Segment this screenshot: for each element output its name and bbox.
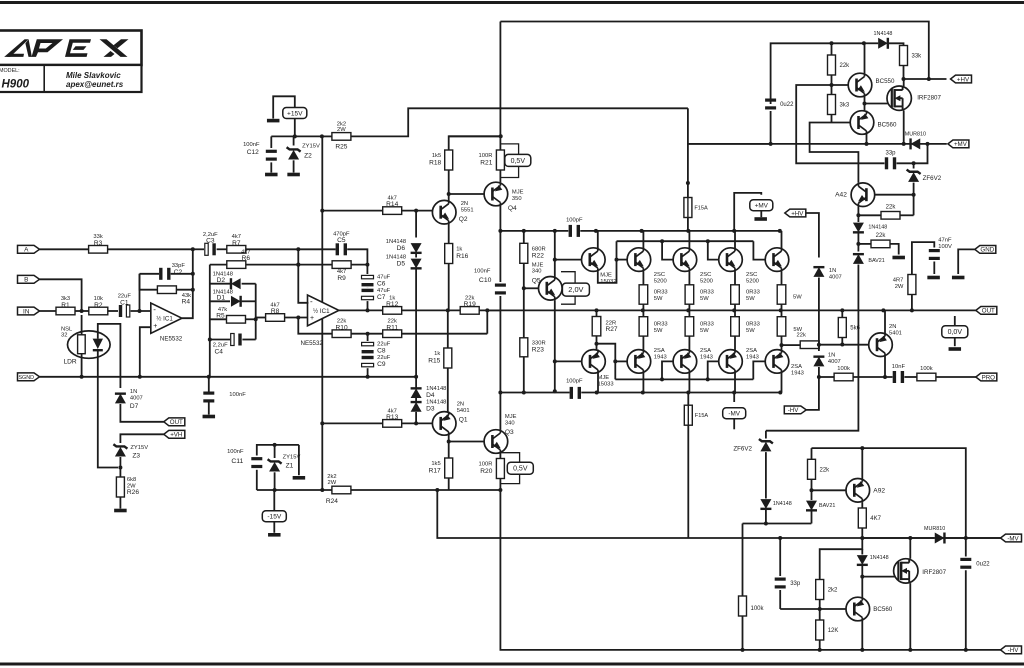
wire ZF6V2 to A42 base line (913, 183, 915, 216)
wire IC1a feedback column (139, 274, 141, 311)
svg-text:BC560: BC560 (873, 606, 892, 613)
junction R22 railT (522, 229, 526, 233)
wire 100nF to ground bar (208, 377, 210, 392)
svg-text:D4: D4 (426, 392, 435, 399)
resistor 22k cap multiplier (828, 55, 851, 75)
wire 0R33 upper b to OUT rail (688, 304, 690, 310)
wire 2SC5200 a collector to railT (642, 231, 644, 248)
wire 2SC5200 b collector to railT (688, 231, 690, 248)
junction lower base bus b (660, 377, 664, 381)
zener Z1 ZY15V (268, 455, 301, 472)
svg-text:H900: H900 (2, 79, 30, 91)
svg-text:MJE: MJE (598, 375, 610, 381)
junction BC560 emitter +MV line (865, 142, 869, 146)
svg-text:2k2: 2k2 (828, 588, 838, 594)
connector A (18, 245, 40, 253)
svg-text:5401: 5401 (889, 331, 902, 337)
capacitor C10 100nF (474, 269, 506, 295)
wire 5k6 column (841, 310, 843, 317)
svg-text:Z1: Z1 (286, 463, 294, 470)
ground bar below Z2 (287, 173, 300, 177)
ground bar below 0,0V (949, 347, 962, 351)
svg-text:1943: 1943 (791, 370, 804, 376)
wire R8 to IC1b + input (285, 317, 309, 319)
junction MJE15032 collector railT (594, 229, 598, 233)
junction base tap output Q10a (613, 359, 617, 363)
svg-text:½ IC1: ½ IC1 (313, 308, 330, 315)
capacitor 0u22 upper (765, 99, 794, 110)
diode D5 1N4148 (386, 255, 422, 269)
svg-text:Z2: Z2 (304, 153, 312, 160)
ground bar below 100nF (203, 415, 216, 419)
wire R25 over to F15A column (351, 108, 688, 136)
wire R23 column (523, 288, 525, 337)
wire 0R33 lower c to 2SA emitter (734, 336, 736, 350)
capacitor 33p upper (885, 150, 896, 169)
junction IRF drain -MV (908, 536, 912, 540)
wire gate diode column (861, 549, 863, 554)
svg-text:R16: R16 (456, 253, 468, 260)
svg-text:22k: 22k (820, 467, 831, 473)
wire 100k to 10nF (853, 376, 892, 378)
wire LED bottom down to Z3 node (98, 350, 118, 467)
junction hook +MV line (926, 142, 930, 146)
svg-text:ZY15V: ZY15V (130, 445, 148, 451)
resistor 22k 5W (793, 327, 819, 348)
wire R14 line (322, 210, 382, 212)
junction Q5 collector railT (553, 229, 557, 233)
wire +HV mid tag to protection diodes (806, 213, 819, 258)
wire node to C3 (193, 248, 204, 250)
resistor 33k (900, 46, 923, 66)
wire clamp diode to PRO line (818, 367, 820, 377)
wire R18-R21 top rail (449, 135, 501, 137)
junction base bus drop c (706, 239, 710, 243)
svg-text:R2: R2 (94, 302, 103, 309)
wire BC560 base line lower (780, 608, 846, 610)
svg-text:0R33: 0R33 (746, 290, 760, 296)
wire C11 Z1 bottom rail to R24 (257, 489, 332, 491)
fuse F15A lower (684, 405, 708, 425)
connector B (18, 275, 40, 283)
wire C11 down (256, 470, 258, 490)
capacitor C6 47uF (362, 274, 391, 287)
svg-text:4007: 4007 (828, 359, 841, 365)
svg-text:0u22: 0u22 (780, 102, 794, 108)
wire -MV label stub from railB (733, 393, 735, 403)
svg-text:1N: 1N (829, 268, 836, 274)
wire clamp column crossing OUT rail (818, 278, 820, 340)
svg-text:R9: R9 (337, 275, 346, 282)
junction Q11 collector railB (686, 391, 690, 395)
wire Q4 collector to railT (499, 206, 501, 231)
wire R2 to C1 (108, 310, 118, 312)
wire base elbow 2SA d (753, 361, 765, 379)
wire C10 down across OUT rail to railB (499, 296, 501, 393)
junction 0u22 +MV line (769, 142, 773, 146)
junction Q9 collector railT (778, 229, 782, 233)
svg-text:2N: 2N (889, 324, 896, 330)
svg-text:12K: 12K (828, 628, 839, 634)
junction bias column R24 rail (320, 488, 324, 492)
wire feedback drop R19 to R11 (486, 310, 488, 333)
svg-text:1943: 1943 (654, 354, 667, 360)
wire R13 line (322, 422, 382, 424)
wire Q5 collector up to railT (554, 231, 556, 277)
connector -HV mid (784, 406, 806, 414)
svg-text:C11: C11 (231, 458, 243, 465)
wire -HV mid tag elbow up to protection column (806, 377, 819, 410)
label 2,0V (562, 283, 589, 296)
svg-text:1k: 1k (434, 351, 440, 357)
junction Z1 top rail (273, 443, 277, 447)
svg-text:R26: R26 (127, 489, 139, 496)
junction top rail +HV line (927, 77, 931, 81)
connector +HV mid (785, 209, 806, 217)
resistor R27 (592, 317, 618, 336)
svg-text:2W: 2W (337, 127, 346, 133)
svg-text:350: 350 (512, 196, 522, 202)
wire R14 to Q2 base (402, 210, 433, 212)
junction IC1b + node (296, 316, 300, 320)
resistor R25 (332, 121, 351, 150)
svg-text:D7: D7 (130, 403, 139, 410)
wire R19 to OUT rail node (479, 309, 500, 311)
svg-text:R20: R20 (480, 468, 492, 475)
junction R27 OUT rail (595, 308, 599, 312)
junction +15V rail (293, 134, 297, 138)
resistor 3k3 (828, 95, 850, 115)
svg-text:PRO: PRO (982, 374, 996, 381)
wire 2SC5200 c emitter to 0R33 (734, 271, 736, 284)
wire D5 to SGND (415, 270, 417, 377)
svg-text:1N4148: 1N4148 (773, 501, 792, 507)
wire top bias line (832, 42, 864, 44)
svg-text:-MV: -MV (1007, 535, 1019, 542)
junction ZF6V2 A42 base (912, 193, 916, 197)
wire Q4 base to Q2 collector (449, 193, 484, 195)
svg-text:4K7: 4K7 (870, 516, 881, 522)
svg-text:340: 340 (532, 269, 542, 275)
svg-text:R12: R12 (386, 301, 398, 308)
junction 22k gnd branch (856, 242, 860, 246)
svg-text:R4: R4 (182, 299, 191, 306)
wire 0R33 lower d from OUT rail (781, 310, 783, 316)
wire A42 emitter node (857, 207, 859, 218)
APEX logo letter A (4, 39, 28, 57)
wire Z1 down (274, 472, 276, 490)
wire down to C6 (366, 265, 368, 274)
junction D3 R13 Q1 base (414, 421, 418, 425)
svg-text:2SC: 2SC (654, 272, 665, 278)
svg-text:BC550: BC550 (876, 78, 895, 85)
APEX logo letter P (32, 39, 64, 57)
svg-text:22k: 22k (886, 205, 897, 211)
diode D7 1N4007 (115, 389, 143, 410)
transistor BC550 (848, 73, 895, 97)
svg-text:+VH: +VH (170, 432, 182, 439)
wire 2SC5200 d emitter to 0R33 (781, 271, 783, 284)
diode 1N4148 top right (874, 31, 893, 49)
connector -MV right (1001, 534, 1022, 542)
svg-text:MODEL:: MODEL: (0, 68, 20, 74)
wire C2 to output column (171, 273, 193, 275)
svg-text:10nF: 10nF (892, 364, 906, 370)
capacitor 47nF 100V (929, 238, 952, 261)
wire Z2 to bar (293, 160, 295, 172)
wire LED top hook to D7 column (98, 324, 121, 355)
wire IN to R1 (40, 310, 56, 312)
wire base stub 2SA a (615, 360, 627, 362)
wire R22 column (523, 231, 525, 243)
resistor R13 (383, 408, 402, 427)
svg-text:A92: A92 (873, 487, 885, 494)
mosfet IRF2807 upper (887, 86, 941, 110)
ground bar below R26 (114, 509, 127, 513)
transistor 2SA1943 output b (673, 350, 697, 374)
connector GND (975, 246, 996, 254)
capacitor C9 22uF (362, 355, 391, 368)
resistor 22k A92 (808, 459, 831, 479)
wire -15V to rail (273, 490, 275, 511)
svg-text:BAV21: BAV21 (819, 503, 835, 509)
wire 4K7 to -MV rail (861, 528, 863, 538)
wire IC1b output line (339, 309, 383, 311)
svg-text:2SA: 2SA (746, 348, 757, 354)
svg-text:5200: 5200 (654, 278, 667, 284)
svg-text:IRF2807: IRF2807 (917, 95, 941, 102)
svg-text:+: + (310, 315, 314, 322)
svg-text:32: 32 (61, 333, 67, 339)
svg-text:2W: 2W (328, 480, 337, 486)
junction R19 R11 OUT rail (485, 308, 489, 312)
svg-text:1N: 1N (828, 353, 835, 359)
svg-text:-HV: -HV (788, 407, 800, 414)
svg-text:340: 340 (505, 421, 515, 427)
wire 0u22 to +MV line (770, 111, 772, 144)
junction Q2 collector Q4 base (447, 192, 451, 196)
svg-text:5W: 5W (654, 328, 663, 334)
junction Q8 collector railT (732, 229, 736, 233)
junction BC560 emitter -HV (860, 648, 864, 652)
svg-text:R1: R1 (61, 302, 70, 309)
power label +15V (283, 108, 307, 119)
svg-text:A: A (24, 247, 29, 254)
svg-text:BAV21: BAV21 (868, 258, 884, 264)
svg-text:1N4148: 1N4148 (874, 31, 893, 37)
junction IN line / LDR column (80, 309, 84, 313)
capacitor C3 (203, 232, 218, 255)
junction 33k IRF drain (902, 77, 906, 81)
svg-text:6k8: 6k8 (127, 477, 136, 483)
junction 0R33 OUT rail d (779, 308, 783, 312)
wire Z1 gnd column (298, 445, 300, 475)
wire BC550 collector to top line (864, 43, 866, 73)
svg-text:33k: 33k (912, 54, 923, 60)
svg-text:Mile Slavkovic: Mile Slavkovic (66, 71, 121, 80)
wire -MV label lower stub (733, 419, 735, 430)
junction Z3 LED R26 (118, 466, 122, 470)
junction on F15A column (686, 181, 690, 185)
wire feedback lower branch to R4 (140, 274, 158, 290)
wire lower F15A to -MV rail (687, 425, 689, 538)
connector OUT left (164, 418, 185, 426)
svg-text:5W: 5W (700, 328, 709, 334)
wire IC1b + column down to R10 line (298, 318, 332, 334)
junction 22k top (830, 41, 834, 45)
wire D2 (210, 283, 230, 285)
connector +VH (164, 430, 185, 438)
wire 33p to +MV hook (897, 144, 928, 163)
connector +HV right (951, 75, 972, 83)
junction +15V rail R25 column (320, 134, 324, 138)
wire Z1 column top (274, 445, 276, 458)
svg-text:C12: C12 (247, 149, 259, 156)
junction 33p -MV rail (778, 536, 782, 540)
svg-text:F15A: F15A (694, 206, 708, 212)
wire 2N5401 collector to PRO line (884, 356, 886, 377)
wire railB right segment (581, 392, 780, 394)
svg-text:33pF: 33pF (172, 263, 186, 269)
wire 22k stub (811, 448, 813, 459)
wire C12 column (270, 136, 272, 148)
diode 1N4007 upper clamp (813, 267, 841, 280)
transistor 2N5401 protection (869, 324, 902, 356)
transistor 2SC5200 output b (673, 248, 697, 272)
ground bar 22k branch (892, 256, 905, 260)
junction 2N5401 PRO line (883, 375, 887, 379)
svg-text:100k: 100k (837, 366, 850, 372)
wire railT right segment (580, 230, 780, 232)
resistor R20 (479, 459, 505, 479)
svg-text:NE5532: NE5532 (160, 335, 183, 342)
power bar below -15V (268, 533, 281, 537)
wire base elbow 2SC b (662, 241, 673, 259)
wire 22k to BC550 base node (831, 75, 833, 95)
capacitor C7 47uF (362, 288, 391, 301)
svg-text:5200: 5200 (700, 278, 713, 284)
wire BC550 base line (832, 84, 849, 86)
wire base stub 2SC a (617, 259, 628, 261)
junction right column -MV (964, 536, 968, 540)
svg-text:0,5V: 0,5V (511, 158, 526, 165)
junction base bus drop b (660, 239, 664, 243)
svg-text:4007: 4007 (829, 274, 842, 280)
svg-text:BC560: BC560 (878, 122, 897, 129)
junction R22 R23 Q5 base (522, 286, 526, 290)
junction Q1 emitter R17 (447, 440, 451, 444)
transistor Q1 2N5401 (432, 401, 469, 435)
svg-text:0R33: 0R33 (654, 322, 668, 328)
wire diode string upper column (415, 211, 417, 238)
wire MJE15033 collector to railB (597, 373, 599, 393)
connector OUT right (976, 307, 997, 315)
svg-text:330R: 330R (532, 340, 546, 346)
wire 0R33 lower c from OUT rail (734, 310, 736, 316)
junction R10 R11 C8 (366, 332, 370, 336)
svg-text:R21: R21 (480, 159, 492, 166)
resistor R1 (56, 296, 75, 315)
wire gate stub to IRF2807 upper (865, 103, 894, 105)
wire R18 top to rail (449, 136, 501, 150)
junction lower base bus c (706, 377, 710, 381)
wire 1N4148 to cross line (765, 510, 767, 524)
wire C6 to C7 (367, 287, 369, 289)
wire 22k right elbow (900, 214, 914, 216)
svg-text:5W: 5W (793, 295, 802, 301)
svg-text:1N: 1N (130, 389, 137, 395)
wire R16 to emitter node (448, 264, 450, 311)
wire to R25 (322, 135, 332, 137)
connector SGND (18, 373, 40, 381)
svg-text:C5: C5 (337, 237, 346, 244)
junction C2 on output column (191, 272, 195, 276)
capacitor 10nF (892, 364, 906, 383)
svg-text:2W: 2W (895, 284, 904, 290)
wire BC560 emitter to +MV line (866, 134, 868, 144)
svg-text:C1: C1 (120, 299, 129, 306)
resistor 22k A42 (881, 205, 900, 220)
junction R23 railB (522, 391, 526, 395)
wire BAV21 lower to diode line (811, 498, 813, 500)
junction MJE15033 collector railB (595, 391, 599, 395)
resistor R22 (520, 243, 546, 263)
wire +15V rail (271, 135, 322, 137)
wire C1 to IC1a inverting input (131, 310, 151, 312)
junction railB right end (778, 391, 782, 395)
transistor BC560 lower (846, 597, 893, 621)
resistor R4 (157, 286, 191, 306)
wire C7 to IC1b output line (367, 301, 369, 310)
wire IC1a output (182, 249, 193, 318)
svg-text:R11: R11 (386, 324, 398, 331)
capacitor C5 (333, 231, 350, 255)
wire Q5 base line (524, 287, 539, 289)
capacitor 100nF input rail (203, 392, 246, 403)
wire 100k to -HV rail (742, 616, 744, 650)
transistor Q6 MJE15032 driver (582, 248, 617, 285)
svg-text:R8: R8 (271, 308, 280, 315)
junction diode line (764, 522, 768, 526)
svg-text:C6: C6 (377, 281, 386, 288)
svg-text:47nF: 47nF (938, 238, 952, 244)
wire SGND rail (40, 376, 417, 378)
connector IN (18, 307, 40, 315)
resistor 0R33 lower c (731, 317, 740, 336)
svg-text:C8: C8 (377, 348, 386, 355)
bracket for 0,5V measure at R20 (500, 453, 519, 463)
capacitor 100pF upper (566, 217, 583, 237)
svg-text:MJE: MJE (532, 262, 544, 268)
ground bar GND tag (952, 276, 965, 280)
op-amp U1B half NE5532 (308, 295, 339, 326)
wire GND tag hook (958, 249, 975, 274)
svg-text:2SA: 2SA (791, 364, 802, 370)
op-amp U1A half NE5532 (151, 303, 182, 333)
svg-text:2N: 2N (461, 201, 468, 207)
svg-text:100pF: 100pF (566, 217, 583, 223)
wire Q5 emitter down to railB (554, 300, 556, 391)
svg-text:1k5: 1k5 (432, 153, 441, 159)
svg-text:R13: R13 (386, 414, 398, 421)
connector +MV right (948, 140, 969, 148)
wire R15 to Q1 (447, 368, 449, 412)
junction 0R33 OUT rail c (732, 308, 736, 312)
zener ZF6V2 upper (907, 170, 942, 182)
wire Z3 to R26 node (119, 457, 121, 477)
junction Q4 collector railT (498, 229, 502, 233)
svg-text:-: - (310, 297, 313, 306)
